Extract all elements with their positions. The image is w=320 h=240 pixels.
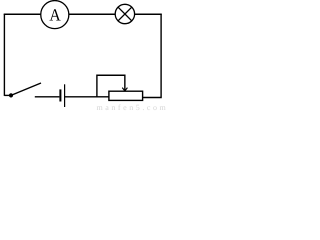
rheostat wiper tap wire (97, 75, 125, 97)
ammeter A label (50, 9, 61, 20)
battery cell positive plate (long thin) (64, 84, 66, 107)
lamp L circle (115, 4, 134, 23)
rheostat R body (109, 91, 143, 100)
wire left side (down to switch) (3, 14, 5, 96)
ammeter A circle (41, 1, 69, 29)
switch S blade (11, 83, 41, 95)
lamp L cross line 2 (118, 7, 132, 21)
battery cell negative plate (short thick) (59, 89, 61, 101)
wire bottom-left stub to switch pivot (4, 94, 9, 96)
wire switch to battery (35, 96, 60, 98)
lamp L cross line 1 (118, 7, 132, 21)
svg-text:manfen5.com: manfen5.com (97, 103, 169, 112)
wire battery to rheostat (65, 96, 109, 98)
wire right side (down to rheostat) (143, 14, 162, 97)
switch S pivot dot (9, 93, 13, 97)
rheostat wiper arrowhead (122, 88, 127, 91)
wire top (behind ammeter and lamp) (4, 13, 162, 15)
